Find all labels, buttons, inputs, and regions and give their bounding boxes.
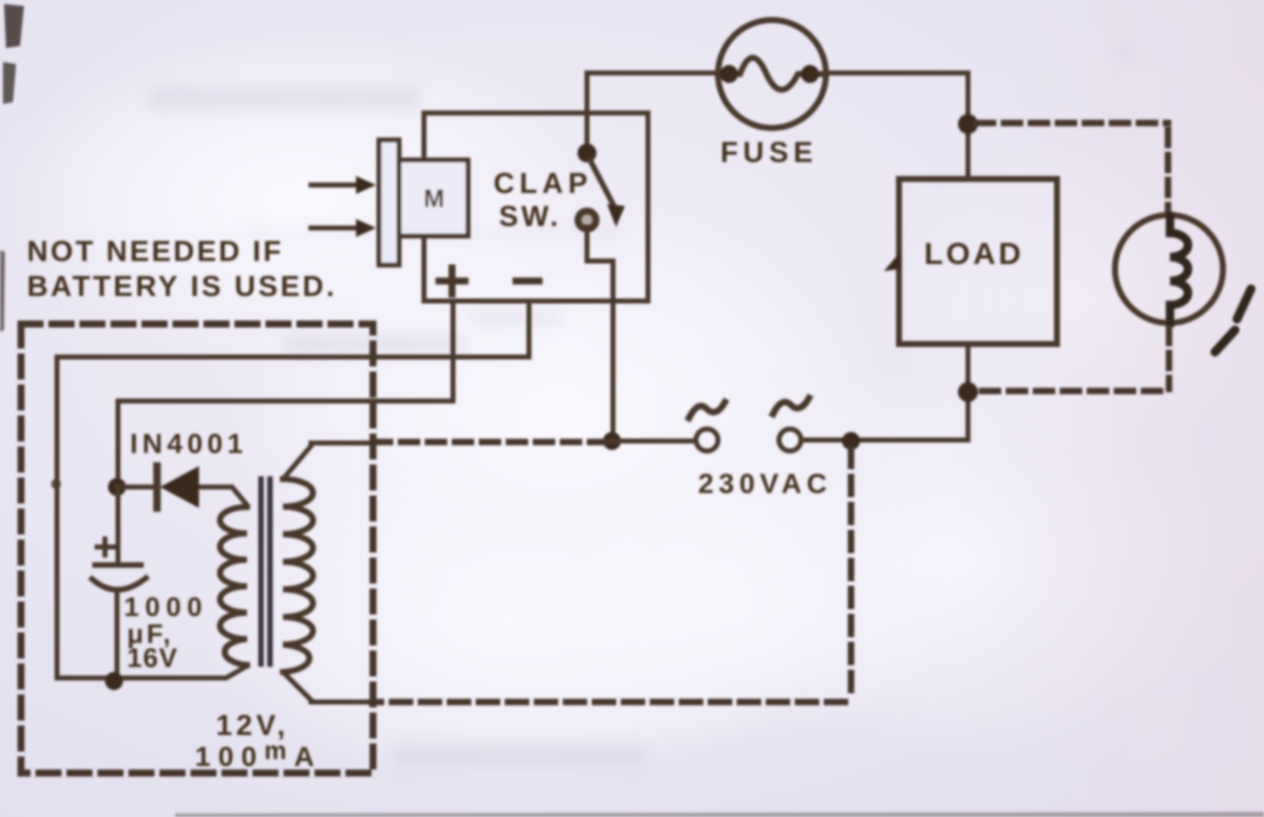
transformer primary bottom lead xyxy=(283,672,368,702)
node diode junction dot xyxy=(108,478,126,496)
dashed supply enclosure box xyxy=(21,324,373,773)
tilde over terminal 2 xyxy=(773,398,809,414)
label - terminal xyxy=(516,278,539,285)
lamp ray 1 xyxy=(1237,289,1251,319)
switch S1 arm arrowhead xyxy=(607,204,625,227)
svg-text:1000: 1000 xyxy=(124,592,208,622)
diode D1 wire xyxy=(117,487,247,505)
load box xyxy=(899,179,1057,344)
switch S1 arm xyxy=(590,160,615,208)
diode D1 cathode bar xyxy=(153,466,161,508)
dashed wire junction down and to transformer primary xyxy=(848,449,855,700)
switch S1 bottom terminal xyxy=(578,211,596,229)
microphone diaphragm bar xyxy=(379,140,399,265)
svg-text:16V: 16V xyxy=(127,643,178,673)
svg-text:BATTERY IS USED.: BATTERY IS USED. xyxy=(27,271,337,303)
svg-text:230VAC: 230VAC xyxy=(698,468,832,499)
node top junction dot xyxy=(958,114,978,134)
transformer T1 primary coil (right) xyxy=(283,479,313,672)
wire junction to terminal 1 xyxy=(612,439,696,444)
svg-text:LOAD: LOAD xyxy=(924,236,1024,271)
svg-text:FUSE: FUSE xyxy=(720,137,817,169)
capacitor C1 bottom lead xyxy=(115,592,120,681)
wire plus terminal to diode junction xyxy=(118,301,453,487)
svg-text:SW.: SW. xyxy=(499,201,561,233)
fuse F1 circle xyxy=(718,20,826,128)
label + terminal xyxy=(439,268,465,294)
paper light blooms xyxy=(0,30,600,370)
transformer primary top lead xyxy=(283,443,368,479)
wire terminal 2 to load bottom xyxy=(801,344,968,440)
wire fuse to load top xyxy=(826,73,968,179)
capacitor C1 top plate xyxy=(95,562,141,568)
svg-text:M: M xyxy=(424,185,445,213)
capacitor C1 top lead xyxy=(116,487,121,562)
wire from clap switch top to fuse xyxy=(587,73,718,147)
node 230VAC left junction dot xyxy=(603,432,621,450)
lamp ray 2 xyxy=(1215,330,1235,352)
dashed wire 230VAC line to supply xyxy=(378,439,606,446)
lamp filament xyxy=(1170,216,1188,323)
terminal 1 circle 230VAC xyxy=(696,429,718,451)
svg-text:IN4001: IN4001 xyxy=(130,428,247,459)
switch S1 top terminal dot xyxy=(578,144,597,163)
capacitor C1 bottom plate arc xyxy=(92,578,146,590)
ghost smudges xyxy=(150,49,1131,766)
sound arrow 2 xyxy=(311,226,357,231)
node load bottom junction dot xyxy=(958,382,978,402)
transformer T1 core xyxy=(261,479,270,664)
scan speck on left wire xyxy=(51,479,61,489)
svg-text:100mA: 100mA xyxy=(195,737,322,772)
diode D1 triangle xyxy=(160,466,199,508)
tilde over terminal 1 xyxy=(689,402,725,418)
svg-text:CLAP: CLAP xyxy=(494,168,593,200)
lamp L1 circle xyxy=(1115,215,1223,323)
dashed wire lamp to bottom junction xyxy=(1166,328,1173,389)
sound arrow 1 xyxy=(311,183,357,188)
fuse right dot xyxy=(801,65,819,83)
load left edge mark xyxy=(884,252,901,271)
microphone M box xyxy=(398,160,468,236)
fuse sine element xyxy=(718,58,826,90)
clap switch box xyxy=(424,113,648,301)
fuse left dot xyxy=(720,65,738,83)
terminal 2 circle 230VAC xyxy=(779,429,801,451)
node dashed-drop junction dot xyxy=(842,432,860,450)
wire switch output down to 230VAC line xyxy=(587,227,613,441)
wire minus terminal to cap bottom rail xyxy=(57,301,529,678)
transformer T1 secondary coil (left) xyxy=(220,507,247,665)
svg-text:NOT NEEDED IF: NOT NEEDED IF xyxy=(27,236,283,268)
label cap + xyxy=(97,539,113,555)
node cap bottom junction dot xyxy=(105,672,123,690)
dashed wire top junction to lamp xyxy=(977,120,1168,127)
